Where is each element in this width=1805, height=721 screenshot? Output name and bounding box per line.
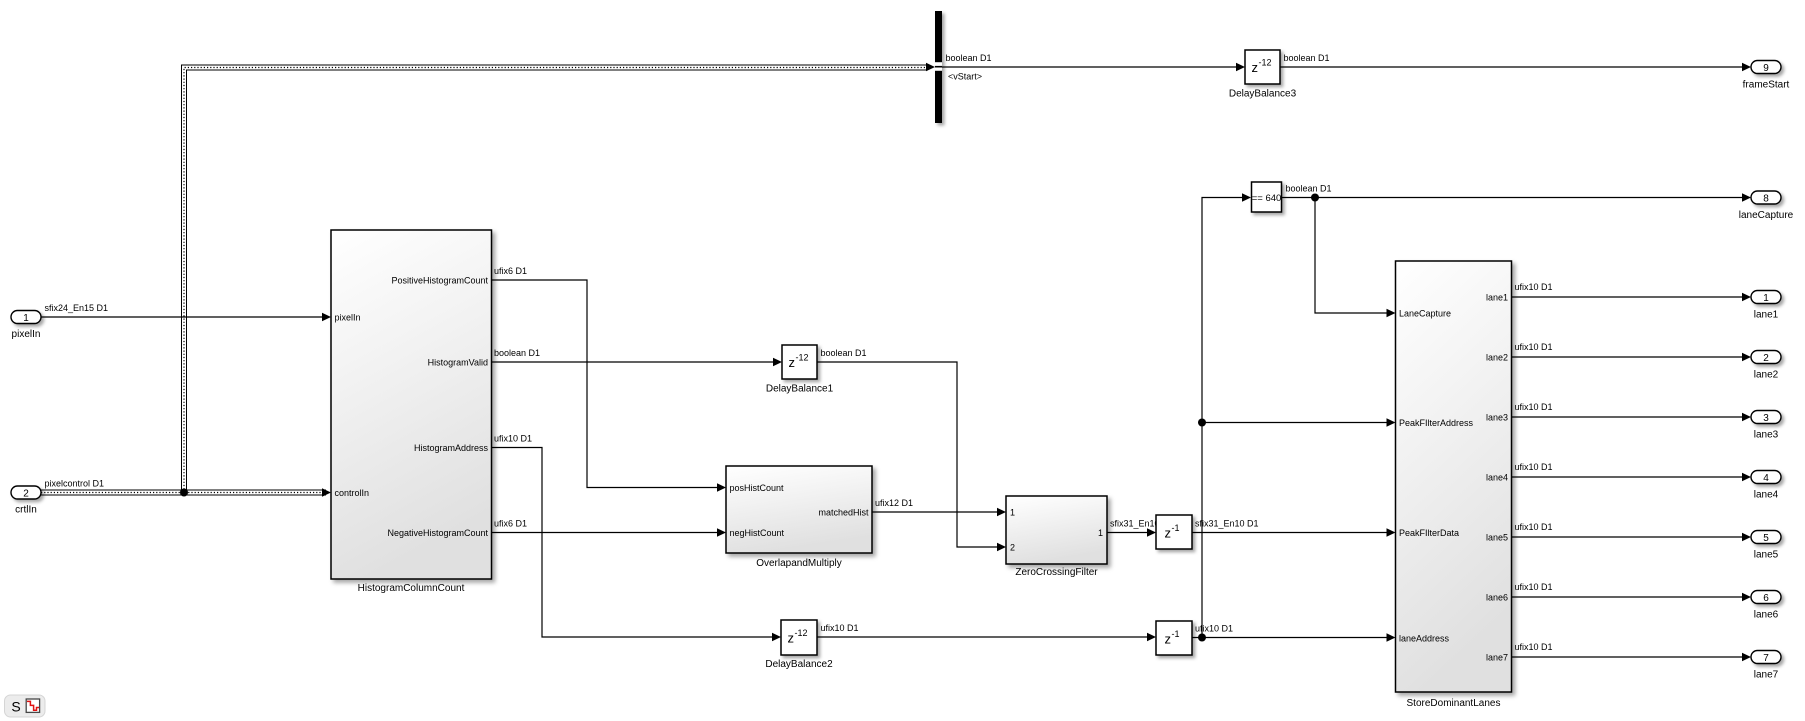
wire lane6 to outport [1512,593,1752,601]
svg-text:ufix10 D1: ufix10 D1 [1515,282,1553,292]
svg-text:ufix6 D1: ufix6 D1 [494,266,527,276]
svg-text:ZeroCrossingFilter: ZeroCrossingFilter [1015,567,1098,578]
svg-text:1: 1 [1010,508,1015,518]
outport 7 lane7 [1751,651,1781,681]
svg-text:ufix10 D1: ufix10 D1 [1515,522,1553,532]
svg-text:1: 1 [23,313,29,324]
wire Delay z-1 upper to PeakFIlterData [1192,528,1396,536]
svg-text:negHistCount: negHistCount [730,528,785,538]
outport 1 lane1 [1751,291,1781,321]
svg-text:<vStart>: <vStart> [948,72,982,82]
svg-text:ufix10 D1: ufix10 D1 [1515,642,1553,652]
outport 5 lane5 [1751,531,1781,561]
svg-text:pixelIn: pixelIn [335,313,361,323]
wire HistogramAddress to DelayBalance2 [492,448,782,642]
svg-text:1: 1 [1098,528,1103,538]
wire DelayBalance1 to ZeroCrossingFilter in2 [817,362,1006,551]
outport 2 lane2 [1751,351,1781,381]
svg-text:PeakFIlterAddress: PeakFIlterAddress [1399,418,1474,428]
svg-text:ufix10 D1: ufix10 D1 [821,623,859,633]
svg-text:-12: -12 [1259,58,1272,68]
svg-text:2: 2 [1763,353,1769,364]
svg-text:lane4: lane4 [1754,490,1779,501]
wire DelayBalance3 to frameStart outport [1280,63,1751,71]
wire lane5 to outport [1512,533,1752,541]
outport 3 lane3 [1751,411,1781,441]
svg-text:ufix10 D1: ufix10 D1 [1515,582,1553,592]
svg-text:1: 1 [1763,293,1769,304]
svg-text:lane6: lane6 [1754,610,1779,621]
svg-text:lane6: lane6 [1486,593,1508,603]
svg-text:lane2: lane2 [1754,370,1779,381]
block Compare To Constant == 640 [1252,182,1282,212]
svg-text:8: 8 [1763,193,1769,204]
outport 8 laneCapture [1739,191,1794,221]
svg-text:-1: -1 [1172,523,1180,533]
junction dot laneAddress net [1198,634,1206,642]
svg-text:lane3: lane3 [1486,413,1508,423]
block Delay z-1 lower [1156,621,1192,655]
svg-text:z: z [1252,60,1259,75]
block OverlapandMultiply [726,466,872,569]
inport 2 crtlIn [11,486,41,516]
svg-text:pixelcontrol D1: pixelcontrol D1 [45,479,105,489]
wire bus selector to DelayBalance3 [942,63,1245,71]
svg-text:7: 7 [1763,653,1769,664]
outport 9 frameStart [1743,61,1790,91]
junction dot compare out [1311,194,1319,202]
svg-text:boolean D1: boolean D1 [1284,53,1330,63]
svg-text:ufix10 D1: ufix10 D1 [1515,402,1553,412]
outport 6 lane6 [1751,591,1781,621]
block ZeroCrossingFilter [1006,496,1107,578]
svg-text:ufix10 D1: ufix10 D1 [1195,624,1233,634]
wire DelayBalance2 to Delay z-1 lower [817,633,1156,641]
svg-text:2: 2 [23,488,29,499]
svg-text:lane2: lane2 [1486,353,1508,363]
svg-text:matchedHist: matchedHist [818,508,869,518]
wire Delay z-1 lower to laneAddress [1192,633,1396,641]
wire ZeroCrossingFilter to Delay z-1 [1107,528,1156,536]
svg-text:sfix31_En10 D1: sfix31_En10 D1 [1195,519,1259,529]
junction dot PeakFIlterAddress branch [1198,419,1206,427]
svg-text:NegativeHistogramCount: NegativeHistogramCount [387,528,488,538]
svg-text:z: z [1165,526,1172,541]
block HistogramColumnCount [331,230,492,594]
svg-text:StoreDominantLanes: StoreDominantLanes [1407,698,1501,709]
svg-text:HistogramValid: HistogramValid [428,358,488,368]
svg-text:== 640: == 640 [1252,193,1282,204]
svg-text:boolean D1: boolean D1 [821,348,867,358]
wire lane4 to outport [1512,473,1752,481]
wire matchedHist to ZeroCrossingFilter in1 [872,508,1006,516]
svg-text:6: 6 [1763,593,1769,604]
svg-text:ufix6 D1: ufix6 D1 [494,519,527,529]
svg-text:laneCapture: laneCapture [1739,210,1794,221]
svg-text:HistogramColumnCount: HistogramColumnCount [358,583,465,594]
wire lane7 to outport [1512,653,1752,661]
svg-text:PositiveHistogramCount: PositiveHistogramCount [391,276,488,286]
svg-text:z: z [789,355,796,370]
svg-text:boolean D1: boolean D1 [946,53,992,63]
svg-text:lane1: lane1 [1486,293,1508,303]
svg-text:LaneCapture: LaneCapture [1399,309,1451,319]
svg-text:S: S [11,699,20,715]
svg-text:lane7: lane7 [1486,653,1508,663]
svg-text:PeakFIlterData: PeakFIlterData [1399,528,1459,538]
svg-text:ufix10 D1: ufix10 D1 [1515,462,1553,472]
svg-text:DelayBalance1: DelayBalance1 [766,384,834,395]
svg-text:OverlapandMultiply: OverlapandMultiply [756,558,842,569]
wire NegativeHistogramCount to negHistCount [492,528,727,536]
wire lane1 to outport [1512,293,1752,301]
svg-text:3: 3 [1763,413,1769,424]
svg-text:DelayBalance2: DelayBalance2 [765,659,833,670]
svg-text:crtlIn: crtlIn [15,505,37,516]
svg-text:lane5: lane5 [1754,550,1779,561]
wire PositiveHistogramCount to posHistCount [492,280,727,492]
block DelayBalance2 [765,620,833,670]
wire lane2 to outport [1512,353,1752,361]
outport 4 lane4 [1751,471,1781,501]
svg-text:lane3: lane3 [1754,430,1779,441]
svg-text:-12: -12 [796,353,809,363]
svg-text:z: z [788,631,795,646]
bus wire branch up to Bus Selector [182,63,936,493]
inport 1 pixelIn [11,311,41,341]
svg-text:boolean D1: boolean D1 [1286,184,1332,194]
wire lane3 to outport [1512,413,1752,421]
svg-text:ufix12 D1: ufix12 D1 [875,498,913,508]
bus wire crtlIn to controlIn [41,488,331,496]
svg-text:4: 4 [1763,473,1769,484]
svg-text:boolean D1: boolean D1 [494,348,540,358]
svg-text:z: z [1165,632,1172,647]
wire compare out to laneCapture outport [1282,193,1752,201]
svg-text:2: 2 [1010,543,1015,553]
svg-text:lane7: lane7 [1754,670,1779,681]
svg-text:9: 9 [1763,63,1769,74]
block DelayBalance3 [1229,50,1297,100]
bus junction dot [180,489,188,497]
svg-text:HistogramAddress: HistogramAddress [414,443,489,453]
wire branch up to compare and PeakFIlterAddress [1202,193,1396,637]
svg-text:frameStart: frameStart [1743,80,1790,91]
block Delay z-1 upper [1156,515,1192,549]
wire HistogramValid to DelayBalance1 [492,358,783,366]
wire pixelIn to HistogramColumnCount [41,313,331,321]
svg-text:laneAddress: laneAddress [1399,634,1450,644]
svg-text:ufix10 D1: ufix10 D1 [494,434,532,444]
svg-text:ufix10 D1: ufix10 D1 [1515,342,1553,352]
svg-text:pixelIn: pixelIn [12,329,41,340]
svg-text:-1: -1 [1172,629,1180,639]
svg-text:lane1: lane1 [1754,310,1779,321]
sample time badge S [5,695,46,717]
svg-text:-12: -12 [795,628,808,638]
svg-text:controlIn: controlIn [335,488,370,498]
svg-text:5: 5 [1763,533,1769,544]
block DelayBalance1 [766,345,834,395]
svg-text:sfix31_En10: sfix31_En10 [1110,519,1160,529]
svg-text:sfix24_En15 D1: sfix24_En15 D1 [45,303,109,313]
block StoreDominantLanes [1396,261,1512,709]
svg-text:DelayBalance3: DelayBalance3 [1229,89,1297,100]
svg-text:lane5: lane5 [1486,533,1508,543]
wire branch down to LaneCapture [1315,198,1396,318]
svg-text:lane4: lane4 [1486,473,1508,483]
bus selector bar [935,11,942,123]
svg-text:posHistCount: posHistCount [730,483,785,493]
